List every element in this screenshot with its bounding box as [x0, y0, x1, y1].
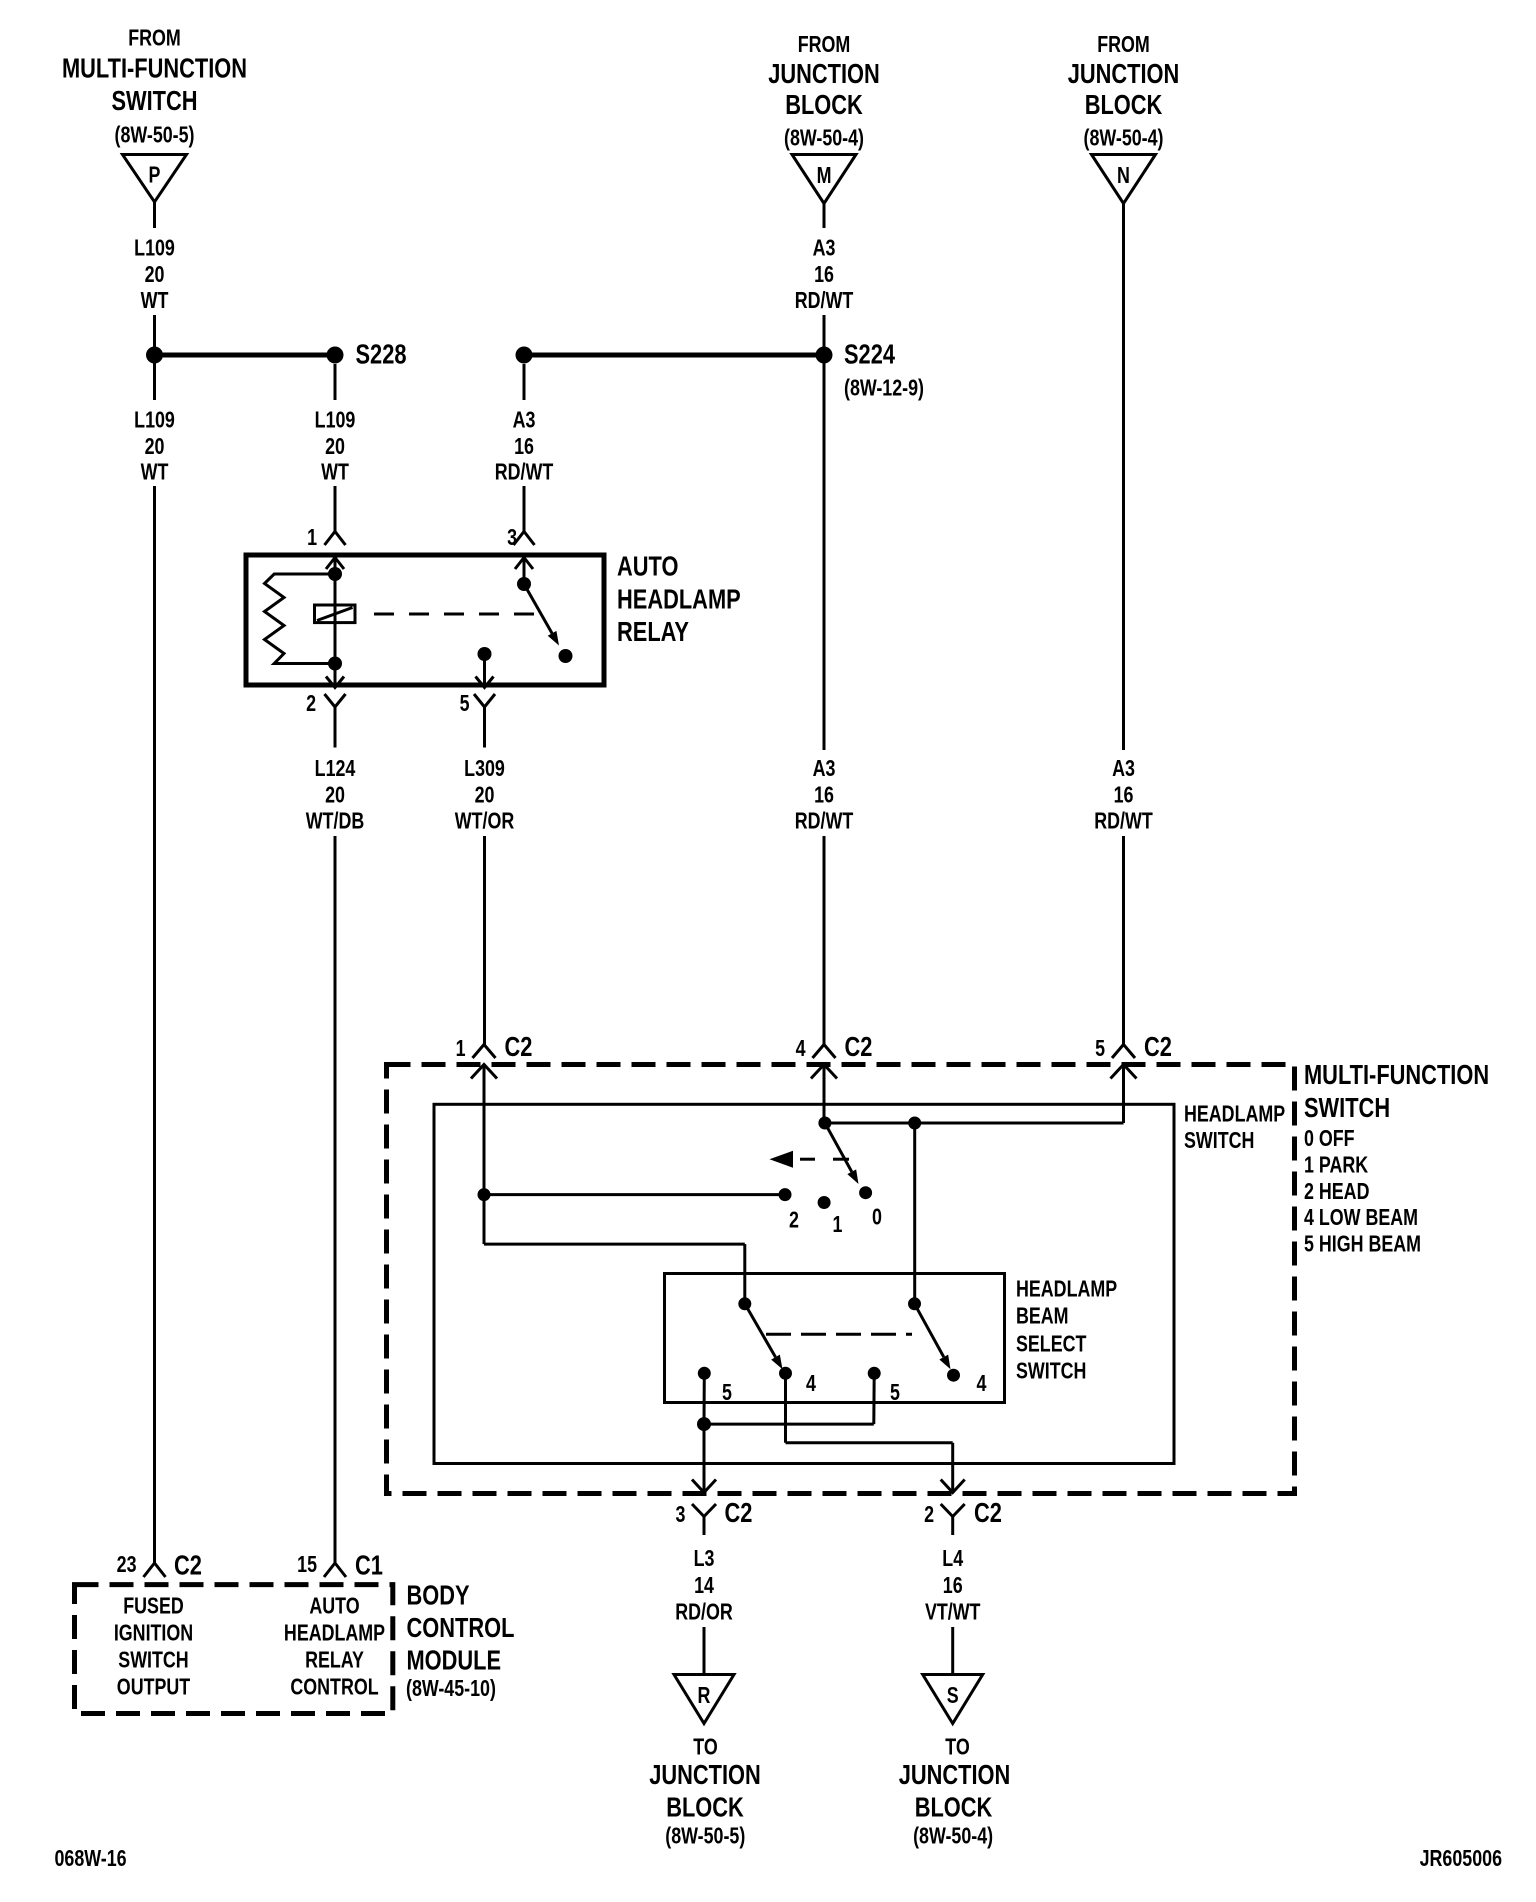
svg-text:2: 2 — [789, 1207, 799, 1233]
svg-text:C2: C2 — [725, 1497, 753, 1528]
svg-text:FROM: FROM — [128, 25, 181, 51]
svg-text:(8W-50-4): (8W-50-4) — [1084, 125, 1164, 151]
svg-text:BLOCK: BLOCK — [666, 1792, 744, 1823]
svg-text:A3: A3 — [513, 407, 536, 433]
svg-text:L3: L3 — [694, 1546, 715, 1572]
svg-text:BODY: BODY — [407, 1580, 470, 1611]
svg-text:C1: C1 — [355, 1550, 383, 1581]
svg-text:JUNCTION: JUNCTION — [768, 58, 880, 89]
svg-text:P: P — [149, 162, 161, 188]
svg-text:SWITCH: SWITCH — [1304, 1092, 1390, 1123]
svg-text:HEADLAMP: HEADLAMP — [284, 1620, 385, 1646]
svg-text:BLOCK: BLOCK — [1085, 89, 1163, 120]
svg-text:TO: TO — [945, 1734, 969, 1760]
svg-text:15: 15 — [297, 1552, 317, 1578]
svg-text:16: 16 — [814, 262, 834, 288]
svg-text:BLOCK: BLOCK — [785, 89, 863, 120]
svg-text:RELAY: RELAY — [617, 616, 689, 647]
svg-text:5: 5 — [1095, 1036, 1105, 1062]
svg-text:FROM: FROM — [798, 32, 851, 58]
svg-text:5: 5 — [460, 691, 470, 717]
svg-text:CONTROL: CONTROL — [407, 1612, 515, 1643]
svg-text:(8W-12-9): (8W-12-9) — [844, 375, 924, 401]
svg-text:RD/WT: RD/WT — [1094, 808, 1153, 834]
svg-text:FROM: FROM — [1097, 32, 1150, 58]
svg-text:WT: WT — [321, 459, 349, 485]
svg-text:SWITCH: SWITCH — [118, 1647, 188, 1673]
svg-text:3: 3 — [675, 1502, 685, 1528]
svg-text:16: 16 — [943, 1573, 963, 1599]
svg-text:S228: S228 — [356, 339, 407, 370]
svg-text:A3: A3 — [813, 756, 836, 782]
svg-text:R: R — [698, 1683, 711, 1709]
svg-text:BEAM: BEAM — [1016, 1303, 1069, 1329]
svg-text:1: 1 — [456, 1036, 466, 1062]
svg-text:S: S — [947, 1683, 959, 1709]
svg-text:5: 5 — [722, 1380, 732, 1406]
svg-text:JUNCTION: JUNCTION — [649, 1759, 761, 1790]
svg-text:16: 16 — [514, 434, 534, 460]
svg-text:WT/OR: WT/OR — [455, 808, 514, 834]
svg-text:A3: A3 — [813, 235, 836, 261]
svg-text:3: 3 — [507, 525, 517, 551]
svg-text:A3: A3 — [1112, 756, 1135, 782]
svg-text:RD/WT: RD/WT — [795, 288, 854, 314]
svg-text:VT/WT: VT/WT — [925, 1599, 981, 1625]
svg-text:20: 20 — [145, 434, 165, 460]
svg-text:JR605006: JR605006 — [1420, 1846, 1502, 1872]
svg-text:1: 1 — [833, 1212, 843, 1238]
svg-text:WT: WT — [141, 288, 169, 314]
svg-text:20: 20 — [325, 434, 345, 460]
svg-text:16: 16 — [1114, 782, 1134, 808]
svg-text:JUNCTION: JUNCTION — [899, 1759, 1011, 1790]
svg-text:M: M — [817, 163, 832, 189]
svg-text:4: 4 — [796, 1036, 806, 1062]
svg-text:RD/WT: RD/WT — [495, 459, 554, 485]
svg-text:TO: TO — [693, 1734, 717, 1760]
svg-text:MULTI-FUNCTION: MULTI-FUNCTION — [1304, 1059, 1489, 1090]
svg-text:20: 20 — [475, 782, 495, 808]
svg-text:(8W-50-5): (8W-50-5) — [665, 1823, 745, 1849]
svg-text:WT: WT — [141, 459, 169, 485]
svg-text:HEADLAMP: HEADLAMP — [1184, 1101, 1285, 1127]
svg-text:C2: C2 — [1144, 1031, 1172, 1062]
svg-text:(8W-50-4): (8W-50-4) — [913, 1823, 993, 1849]
svg-text:C2: C2 — [845, 1031, 873, 1062]
svg-text:23: 23 — [117, 1552, 137, 1578]
svg-text:0 OFF: 0 OFF — [1304, 1126, 1355, 1152]
svg-text:N: N — [1117, 163, 1130, 189]
svg-text:WT/DB: WT/DB — [306, 808, 364, 834]
svg-text:RD/WT: RD/WT — [795, 808, 854, 834]
svg-text:SWITCH: SWITCH — [1184, 1128, 1254, 1154]
svg-text:C2: C2 — [974, 1497, 1002, 1528]
svg-text:068W-16: 068W-16 — [55, 1846, 127, 1872]
svg-text:L124: L124 — [315, 756, 356, 782]
svg-text:L109: L109 — [134, 407, 175, 433]
svg-text:2 HEAD: 2 HEAD — [1304, 1179, 1369, 1205]
svg-text:AUTO: AUTO — [309, 1593, 359, 1619]
svg-text:4 LOW BEAM: 4 LOW BEAM — [1304, 1205, 1418, 1231]
svg-text:RD/OR: RD/OR — [675, 1599, 733, 1625]
svg-text:OUTPUT: OUTPUT — [117, 1674, 191, 1700]
svg-text:SWITCH: SWITCH — [111, 85, 197, 116]
svg-text:20: 20 — [325, 782, 345, 808]
svg-text:(8W-45-10): (8W-45-10) — [406, 1676, 496, 1702]
svg-text:HEADLAMP: HEADLAMP — [617, 584, 741, 615]
svg-text:FUSED: FUSED — [123, 1593, 184, 1619]
svg-text:BLOCK: BLOCK — [915, 1792, 993, 1823]
svg-text:20: 20 — [145, 262, 165, 288]
svg-text:(8W-50-5): (8W-50-5) — [115, 122, 195, 148]
svg-text:(8W-50-4): (8W-50-4) — [784, 125, 864, 151]
svg-text:L109: L109 — [134, 235, 175, 261]
svg-text:L109: L109 — [315, 407, 356, 433]
svg-text:2: 2 — [924, 1502, 934, 1528]
svg-text:4: 4 — [806, 1371, 816, 1397]
svg-text:IGNITION: IGNITION — [114, 1620, 193, 1646]
svg-text:1 PARK: 1 PARK — [1304, 1152, 1368, 1178]
svg-text:5 HIGH BEAM: 5 HIGH BEAM — [1304, 1231, 1421, 1257]
svg-text:0: 0 — [872, 1204, 882, 1230]
svg-text:MULTI-FUNCTION: MULTI-FUNCTION — [62, 53, 247, 84]
svg-text:C2: C2 — [505, 1031, 533, 1062]
svg-text:4: 4 — [977, 1371, 987, 1397]
svg-text:MODULE: MODULE — [407, 1645, 502, 1676]
svg-text:L4: L4 — [942, 1546, 963, 1572]
svg-text:2: 2 — [306, 691, 316, 717]
svg-text:L309: L309 — [464, 756, 505, 782]
svg-text:1: 1 — [307, 525, 317, 551]
svg-text:SWITCH: SWITCH — [1016, 1358, 1086, 1384]
svg-text:S224: S224 — [844, 339, 895, 370]
svg-text:RELAY: RELAY — [305, 1647, 364, 1673]
svg-text:SELECT: SELECT — [1016, 1331, 1087, 1357]
svg-text:HEADLAMP: HEADLAMP — [1016, 1276, 1117, 1302]
svg-text:AUTO: AUTO — [617, 551, 678, 582]
svg-text:5: 5 — [890, 1380, 900, 1406]
svg-text:JUNCTION: JUNCTION — [1068, 58, 1180, 89]
svg-text:C2: C2 — [174, 1550, 202, 1581]
svg-text:14: 14 — [694, 1573, 714, 1599]
svg-text:CONTROL: CONTROL — [290, 1674, 378, 1700]
svg-text:16: 16 — [814, 782, 834, 808]
